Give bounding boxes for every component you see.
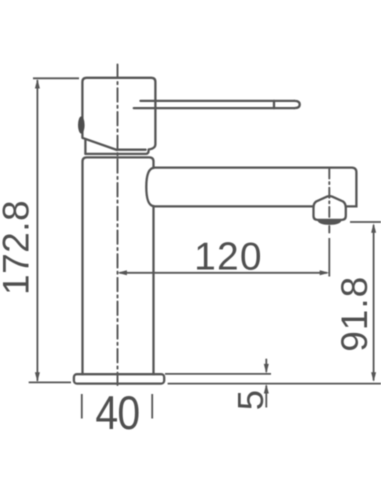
172.8 witness top (33, 77, 79, 79)
40 tick left (81, 394, 83, 419)
91.8 witness top (350, 221, 381, 223)
spout top and right edge (154, 168, 357, 207)
120 right witness (328, 238, 330, 277)
base flange (74, 374, 164, 383)
arrow 120 right (320, 270, 330, 275)
40 tick right (151, 394, 153, 419)
head bottom diagonal (83, 138, 117, 150)
lever bottom line (134, 107, 294, 109)
svg-text:40: 40 (95, 387, 139, 439)
svg-text:91.8: 91.8 (334, 276, 375, 352)
spout bottom left (154, 205, 314, 207)
collar bottom (85, 151, 148, 154)
arrow 5 up (264, 384, 269, 394)
lever top line (141, 100, 295, 102)
aerator screen (317, 220, 341, 225)
91.8 dim line (373, 225, 375, 381)
5 dim upper segment (265, 359, 267, 372)
91.8 / 5 witness bottom (168, 383, 381, 385)
svg-text:120: 120 (194, 235, 263, 278)
arrow 5 down (264, 364, 269, 374)
arrow 172.8 bottom (35, 372, 40, 382)
aerator centerline (328, 169, 330, 233)
body left edge (83, 157, 154, 374)
aerator body (314, 207, 346, 220)
aerator dome (314, 196, 346, 207)
arrow 91.8 top (371, 223, 376, 233)
120 dim line (120, 272, 328, 274)
lever separator (273, 101, 275, 108)
body right edge lower (152, 206, 154, 374)
5 witness top (flange top) (165, 373, 271, 375)
arrow 172.8 top (35, 79, 40, 89)
172.8 witness bottom (29, 381, 71, 383)
5 dim lower segment (265, 386, 267, 408)
collar top line (117, 149, 146, 151)
svg-text:5: 5 (230, 390, 271, 410)
lever end cap (294, 101, 299, 108)
arrow 120 left (117, 270, 127, 275)
handle clip dark blob (78, 116, 85, 133)
head outline (82, 78, 155, 150)
172.8 dim line (36, 80, 38, 381)
collar left edge (84, 139, 86, 154)
arrow 91.8 bottom (371, 372, 376, 382)
faucet axis centerline (117, 65, 119, 386)
spout end cap arc (146, 168, 154, 206)
svg-text:172.8: 172.8 (0, 200, 37, 295)
